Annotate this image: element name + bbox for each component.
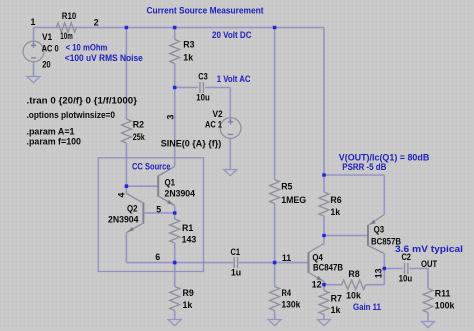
wire R5 to node 11 xyxy=(274,204,276,263)
svg-text:R11: R11 xyxy=(435,289,451,299)
svg-text:.param A=1: .param A=1 xyxy=(27,127,75,137)
wire C1 to Q4 base row xyxy=(239,262,275,264)
resistor R5 xyxy=(270,180,280,204)
wire C2 to OUT corner xyxy=(410,268,429,270)
svg-text:20 Volt DC: 20 Volt DC xyxy=(212,30,252,40)
ground R9 xyxy=(168,320,181,326)
svg-text:25k: 25k xyxy=(133,132,145,142)
svg-text:10m: 10m xyxy=(60,31,73,41)
svg-text:OUT: OUT xyxy=(421,259,438,269)
svg-text:.param f=100: .param f=100 xyxy=(27,136,82,146)
resistor R6 xyxy=(319,192,329,216)
capacitor C2 xyxy=(404,263,406,274)
capacitor C1 xyxy=(233,257,235,268)
svg-text:R5: R5 xyxy=(281,181,292,191)
ground R7 xyxy=(318,320,331,326)
svg-text:130k: 130k xyxy=(281,300,300,310)
wire R8 to corner xyxy=(366,284,385,286)
resistor R3 xyxy=(170,40,180,64)
wire Q4 emitter to node 12 xyxy=(323,282,325,285)
transistor Q3 BC857B xyxy=(367,225,369,246)
wire R9 to ground xyxy=(174,311,176,320)
resistor R1 xyxy=(170,219,180,243)
junction dot 9 xyxy=(322,173,326,177)
capacitor C3 xyxy=(199,82,201,93)
svg-text:Q1: Q1 xyxy=(165,178,176,188)
resistor R4 xyxy=(270,287,280,311)
wire C3 to V2 xyxy=(205,87,230,89)
junction dot 11 xyxy=(322,283,326,287)
svg-text:13: 13 xyxy=(374,268,384,278)
svg-text:1 Volt AC: 1 Volt AC xyxy=(217,74,251,84)
junction dot 3 xyxy=(273,26,277,30)
svg-text:R4: R4 xyxy=(282,288,292,298)
ground V1 xyxy=(27,77,40,83)
svg-text:BC847B: BC847B xyxy=(313,262,343,272)
svg-text:SINE(0 {A} {f}): SINE(0 {A} {f}) xyxy=(161,139,222,149)
junction dot 4 xyxy=(173,86,177,90)
svg-text:2: 2 xyxy=(94,18,99,28)
svg-text:100k: 100k xyxy=(435,300,455,310)
svg-text:Q2: Q2 xyxy=(127,204,138,214)
svg-text:< 10 mOhm: < 10 mOhm xyxy=(66,42,108,52)
wire Q3 base lead xyxy=(324,235,368,237)
svg-text:CC Source: CC Source xyxy=(132,161,171,171)
wire node to Q3 emitter run xyxy=(324,174,384,176)
CC Source boundary box xyxy=(98,158,203,272)
svg-text:Q4: Q4 xyxy=(312,253,323,263)
transistor Q4 BC847B xyxy=(308,252,310,273)
svg-text:Current Source Measurement: Current Source Measurement xyxy=(147,5,264,15)
wire R3 top lead xyxy=(174,28,176,40)
svg-text:C3: C3 xyxy=(198,72,208,82)
svg-text:3: 3 xyxy=(166,114,176,119)
voltage source V2 xyxy=(220,118,241,139)
wire node 13 to C2 xyxy=(384,268,403,270)
transistor Q2 2N3904 xyxy=(142,203,144,224)
svg-text:2N3904: 2N3904 xyxy=(165,188,196,198)
svg-text:V1: V1 xyxy=(42,32,52,42)
svg-text:C1: C1 xyxy=(231,247,241,257)
svg-text:1k: 1k xyxy=(330,207,340,217)
svg-text:3.6 mV typical: 3.6 mV typical xyxy=(395,244,463,254)
wire R6 top lead xyxy=(323,175,325,192)
wire node 12 to R8 xyxy=(324,284,342,286)
wire Q2 base lead node 5 xyxy=(143,212,174,214)
junction dot 1 xyxy=(125,26,129,30)
wire Q1 emitter to node 5 xyxy=(174,206,176,214)
resistor R10 xyxy=(56,23,76,33)
wire R5 column upper xyxy=(274,28,276,180)
svg-text:1k: 1k xyxy=(183,53,193,63)
ground V2 xyxy=(224,170,237,176)
wire corner up to node 13 xyxy=(383,269,385,285)
wire node 6 row xyxy=(126,262,233,264)
junction dot 6 xyxy=(173,211,177,215)
svg-text:1k: 1k xyxy=(331,305,341,315)
svg-text:6: 6 xyxy=(155,252,160,262)
svg-text:4: 4 xyxy=(116,192,126,197)
wire Q4 collector lead xyxy=(323,236,325,244)
svg-text:10k: 10k xyxy=(346,290,361,300)
svg-text:PSRR -5 dB: PSRR -5 dB xyxy=(342,162,386,172)
svg-text:Gain 11: Gain 11 xyxy=(353,302,381,312)
svg-text:1MEG: 1MEG xyxy=(281,195,306,205)
svg-text:1: 1 xyxy=(31,17,36,27)
voltage source V1 xyxy=(23,41,44,62)
svg-text:<100 uV RMS Noise: <100 uV RMS Noise xyxy=(65,53,143,63)
wire R6 bottom lead xyxy=(323,216,325,236)
wire OUT down to R11 xyxy=(427,269,429,289)
wire Q1 base lead xyxy=(126,185,158,187)
resistor R7 xyxy=(319,291,329,315)
svg-text:20: 20 xyxy=(42,59,51,69)
wire Q2 emitter down xyxy=(125,233,127,263)
resistor R11 xyxy=(423,289,433,313)
resistor R8 xyxy=(342,280,366,290)
junction dot 12 xyxy=(383,267,387,271)
svg-text:R6: R6 xyxy=(330,195,341,205)
wire R7 to ground xyxy=(323,315,325,320)
svg-text:2N3904: 2N3904 xyxy=(108,215,139,225)
junction dot 2 xyxy=(173,26,177,30)
wire R2 to node 4 xyxy=(125,143,127,186)
wire R11 to ground xyxy=(427,313,429,322)
wire Q2 collector up to node 4 xyxy=(125,186,127,193)
wire node 11 to R4 xyxy=(274,263,276,287)
wire V2 bottom lead xyxy=(229,139,231,170)
svg-text:11: 11 xyxy=(282,253,291,263)
wire V1 top lead xyxy=(33,28,35,47)
svg-text:AC 1: AC 1 xyxy=(205,119,222,129)
wire Q3 emitter vertical xyxy=(383,175,385,215)
wire R2 column upper xyxy=(125,28,127,120)
wire Q3 collector to node 13 xyxy=(383,254,385,269)
svg-text:R1: R1 xyxy=(182,223,193,233)
wire right rail down xyxy=(323,28,325,176)
junction dot 8 xyxy=(273,261,277,265)
svg-text:5: 5 xyxy=(156,205,161,215)
svg-text:R9: R9 xyxy=(183,288,194,298)
svg-text:.tran 0 {20/f} 0 {1/f/1000}: .tran 0 {20/f} 0 {1/f/1000} xyxy=(27,96,138,106)
wire top rail node 2 xyxy=(34,27,325,29)
wire node 12 to R7 xyxy=(323,285,325,291)
svg-text:R8: R8 xyxy=(348,269,359,279)
junction dot 5 xyxy=(125,184,129,188)
junction dot 7 xyxy=(173,261,177,265)
svg-text:12: 12 xyxy=(312,280,322,290)
wire node 3 to C3 xyxy=(175,87,199,89)
wire V1 bottom lead xyxy=(33,62,35,77)
svg-text:AC 0: AC 0 xyxy=(42,43,59,53)
junction dot 10 xyxy=(322,234,326,238)
svg-text:R10: R10 xyxy=(62,11,77,21)
wire node 5 to R1 xyxy=(174,213,176,219)
ground R4 xyxy=(268,320,281,326)
svg-text:10u: 10u xyxy=(399,273,413,283)
svg-text:V(OUT)/Ic(Q1) = 80dB: V(OUT)/Ic(Q1) = 80dB xyxy=(339,152,430,162)
svg-text:R7: R7 xyxy=(331,294,342,304)
resistor R9 xyxy=(170,287,180,311)
wire R3 bottom to node 3 xyxy=(174,64,176,167)
wire R4 to ground xyxy=(274,311,276,320)
svg-text:V2: V2 xyxy=(213,109,223,119)
svg-text:R2: R2 xyxy=(133,119,144,129)
svg-text:Q3: Q3 xyxy=(374,224,385,234)
wire Q4 base lead xyxy=(275,262,309,264)
wire R1 to node 6 xyxy=(174,243,176,263)
svg-text:.options plotwinsize=0: .options plotwinsize=0 xyxy=(27,110,116,120)
resistor R2 xyxy=(121,119,131,143)
wire node 6 to R9 xyxy=(174,263,176,287)
svg-text:10u: 10u xyxy=(196,93,210,103)
svg-text:143: 143 xyxy=(182,235,197,245)
svg-text:1u: 1u xyxy=(231,268,241,278)
svg-text:R3: R3 xyxy=(183,39,194,49)
ground R11 xyxy=(422,322,435,328)
svg-text:1k: 1k xyxy=(183,300,193,310)
wire V2 top lead xyxy=(229,88,231,123)
transistor Q1 2N3904 xyxy=(157,176,159,197)
